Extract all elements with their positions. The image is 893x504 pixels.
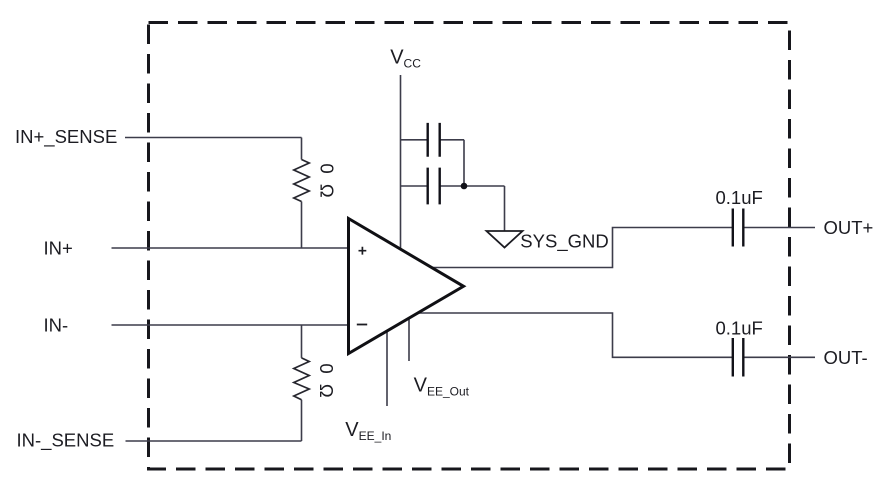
svg-text:IN+: IN+ (44, 238, 73, 259)
svg-text:OUT-: OUT- (824, 347, 868, 368)
svg-text:0 Ω: 0 Ω (316, 363, 337, 400)
svg-text:0 Ω: 0 Ω (317, 163, 338, 200)
svg-text:OUT+: OUT+ (824, 217, 874, 238)
svg-text:IN+_SENSE: IN+_SENSE (15, 126, 117, 148)
svg-text:IN-: IN- (44, 315, 69, 336)
svg-text:IN-_SENSE: IN-_SENSE (17, 430, 115, 452)
svg-text:SYS_GND: SYS_GND (520, 231, 608, 253)
svg-text:0.1uF: 0.1uF (716, 317, 763, 338)
svg-text:0.1uF: 0.1uF (716, 187, 763, 208)
